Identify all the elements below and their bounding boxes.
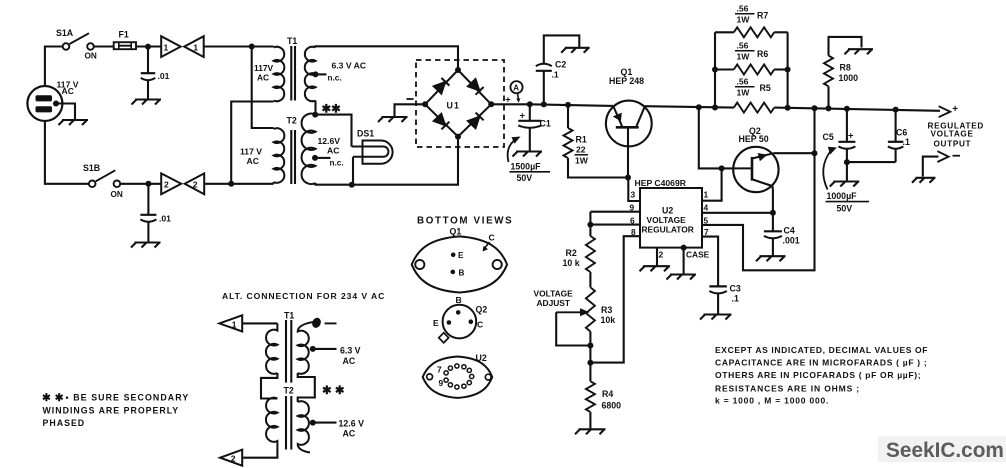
svg-text:10k: 10k: [601, 315, 616, 325]
svg-text:.01: .01: [159, 214, 171, 224]
junction phasing node: [312, 112, 318, 118]
resistor R1 22 1W: [564, 128, 573, 158]
svg-text:1000: 1000: [839, 73, 859, 83]
watermark SeekIC.com: [886, 439, 1004, 462]
Q1 pin B: [451, 269, 465, 278]
label .1 (C3): [732, 294, 739, 304]
svg-text:ALT. CONNECTION FOR 234 V AC: ALT. CONNECTION FOR 234 V AC: [222, 291, 385, 301]
svg-text:1500µF: 1500µF: [511, 162, 542, 172]
alt T1 secondary winding: [298, 322, 314, 374]
wire rail to R1: [567, 105, 569, 128]
resistor R6 .56 1W: [734, 65, 774, 75]
ground below C1: [513, 152, 543, 157]
svg-text:S1B: S1B: [83, 163, 100, 173]
label C (Q2 view): [477, 319, 483, 329]
wire phasing node to DS1: [315, 115, 351, 147]
svg-text:T1: T1: [287, 36, 297, 46]
package outline Q2 TO-5: [443, 305, 477, 339]
alt phasing mark **: [322, 385, 345, 397]
svg-text:VOLTAGE: VOLTAGE: [534, 289, 574, 299]
resistor R4 6800: [586, 381, 595, 412]
svg-text:117 V: 117 V: [240, 147, 262, 157]
pin label 1: [704, 190, 709, 200]
svg-text:B: B: [459, 269, 465, 278]
svg-text:C2: C2: [555, 60, 566, 70]
svg-text:3: 3: [631, 190, 636, 200]
svg-text:1: 1: [704, 190, 709, 200]
svg-text:.1: .1: [903, 137, 910, 147]
wire rail bridge to Q1: [530, 104, 613, 106]
svg-text:F1: F1: [119, 30, 129, 40]
label C1: [540, 119, 551, 129]
wire rail to C5: [846, 109, 848, 142]
Q2 pin B: [456, 310, 461, 315]
junction at lower C-filter: [145, 181, 151, 187]
label U1: [447, 101, 461, 111]
svg-text:CAPACITANCE ARE IN MICROFAR: CAPACITANCE ARE IN MICROFARADS ( µF ) ;: [715, 358, 927, 368]
svg-text:2: 2: [193, 180, 198, 190]
alt secondary series jog: [298, 373, 315, 402]
watermark backdrop: [878, 436, 1006, 462]
IC U2 box: [640, 188, 702, 248]
wire R8 top hook to chassis: [829, 37, 862, 56]
capacitor .01 (upper line filter): [141, 73, 156, 80]
wire arrow 1 to T1 primary: [204, 45, 274, 47]
Q1 base lead: [627, 127, 629, 177]
diode D-upper-left: [433, 78, 449, 94]
svg-text:5: 5: [704, 216, 709, 226]
label 9 (U2 view): [439, 378, 444, 388]
ground below CASE: [667, 275, 697, 280]
svg-text:CASE: CASE: [686, 250, 710, 260]
svg-text:C4: C4: [784, 226, 795, 236]
label R2 10k: [563, 248, 580, 268]
transistor Q1 circle: [606, 101, 652, 147]
chassis ground at plug: [59, 120, 89, 125]
wire R2 to R3: [589, 272, 591, 287]
label ON (S1B): [111, 190, 123, 199]
junction R1: [565, 102, 571, 108]
ground below R4: [575, 429, 606, 434]
wire rail to C1: [529, 104, 531, 121]
Q1 emitter arrow: [613, 113, 622, 122]
Q2 pin C: [469, 319, 474, 324]
svg-text:1: 1: [193, 43, 198, 53]
svg-text:• BE SURE SECONDARY: • BE SURE SECONDARY: [66, 393, 190, 403]
pin label 7: [704, 227, 709, 237]
svg-text:.01: .01: [158, 71, 170, 81]
alt T2 core: [286, 396, 291, 450]
transformer T2 secondary winding 12.6V: [302, 114, 316, 184]
label 7 (U2 view): [437, 365, 442, 375]
junction C5 top: [844, 106, 850, 112]
Q2 emitter line (arrowed): [752, 153, 774, 158]
label .01 (upper): [158, 71, 170, 81]
alt 6.3V tap dot: [310, 346, 316, 352]
chassis ground at bridge negative: [378, 117, 408, 122]
label VOLTAGE ADJUST: [534, 289, 574, 309]
wire F1 to filter 1: [136, 45, 161, 47]
svg-text:12.6V: 12.6V: [318, 136, 341, 146]
wire plug top to S1A: [45, 47, 63, 87]
svg-text:C: C: [477, 319, 483, 329]
junction wiper return: [587, 343, 593, 349]
wire junction up to T1 primary bottom: [231, 102, 273, 184]
capacitor .01 (lower line filter): [140, 215, 156, 222]
svg-text:+: +: [952, 104, 958, 115]
label S1A: [56, 28, 74, 38]
svg-text:VOLTAGE: VOLTAGE: [647, 215, 687, 225]
label CASE: [686, 250, 710, 260]
svg-text:1W: 1W: [575, 156, 589, 166]
svg-text:k = 1000 , M = 1000 000.: k = 1000 , M = 1000 000.: [715, 395, 829, 405]
junction at T1 primary return: [228, 181, 234, 187]
wire base node to U2 pin 3: [628, 178, 640, 202]
U2 pin circles: [444, 364, 474, 389]
alt T2 secondary winding: [298, 401, 310, 452]
alt connector arrow 1: [219, 315, 242, 331]
wire R7 row: [715, 31, 788, 33]
label C3: [730, 284, 741, 294]
fuse F1: [114, 42, 136, 49]
wire collector node to pin 5: [702, 153, 815, 270]
resistor R8 1000: [824, 56, 833, 87]
junction bridge right: [488, 101, 494, 107]
svg-text:T2: T2: [287, 116, 297, 126]
alt wire arrow1 to T1: [242, 322, 277, 324]
svg-text:R3: R3: [601, 305, 612, 315]
Q2 emitter arrow: [758, 153, 768, 161]
connector arrow 1 (left-pointing): [184, 36, 204, 57]
svg-text:✱ ✱: ✱ ✱: [322, 385, 345, 397]
junction at T2 primary takeoff: [249, 44, 255, 50]
junction pin6: [587, 222, 593, 228]
CASE stub: [683, 248, 685, 274]
svg-text:.56: .56: [737, 77, 749, 87]
alt label T2: [284, 385, 294, 395]
svg-text:R5: R5: [760, 83, 771, 93]
pin label 9: [630, 203, 635, 213]
svg-text:A: A: [513, 84, 519, 93]
label HEP 50: [739, 134, 769, 144]
wire pin 6: [590, 224, 640, 226]
junction C2: [541, 101, 547, 107]
wire S1B to filter 2: [120, 183, 161, 185]
wire capacitor to ground: [147, 80, 149, 99]
ground below upper .01 capacitor: [132, 100, 162, 105]
junction R6 left: [712, 67, 718, 73]
ground below C3: [700, 315, 732, 320]
wire R1 to base node: [568, 158, 628, 178]
label Q1: [621, 67, 633, 77]
wire bottom rail to bridge: [316, 137, 459, 185]
svg-text:HEP 248: HEP 248: [609, 76, 644, 86]
label HEP 248: [609, 76, 644, 86]
label Q2 (bottom view): [476, 305, 488, 315]
resistor R2 10k: [586, 236, 595, 272]
svg-text:.1: .1: [732, 294, 739, 304]
Q1 collector line: [636, 106, 645, 127]
label ON (S1A): [85, 52, 97, 61]
wire pin1 riser: [702, 168, 722, 200]
svg-text:B: B: [456, 295, 462, 305]
resistor R7 .56 1W: [734, 27, 774, 37]
wire rail R5 to output: [774, 108, 940, 111]
title BOTTOM VIEWS: [417, 216, 513, 227]
Q2 collector line: [752, 179, 773, 213]
wire plug bottom to S1B: [45, 121, 89, 184]
wire lower capacitor to ground: [147, 222, 149, 243]
label n.c. (6.3V): [328, 74, 342, 83]
svg-text:.56: .56: [737, 4, 749, 14]
label B (Q2 view): [456, 295, 462, 305]
label n.c. (12.6V): [330, 159, 344, 168]
svg-text:2: 2: [659, 250, 664, 260]
alt 12.6V tap wire: [313, 422, 337, 424]
svg-text:OUTPUT: OUTPUT: [934, 140, 972, 149]
wire T1 secondary bottom to phasing junction: [314, 101, 316, 115]
capacitor C2 .1: [536, 64, 552, 71]
svg-text:6800: 6800: [602, 401, 622, 411]
svg-text:HEP 50: HEP 50: [739, 134, 769, 144]
svg-text:R8: R8: [840, 63, 851, 73]
wire Q2 top node: [774, 152, 815, 154]
wire T1 secondary top to bridge: [316, 46, 459, 70]
junction Q1 base / R1 / pin3: [625, 175, 631, 181]
svg-text:S1A: S1A: [56, 28, 74, 38]
label C5: [823, 132, 834, 142]
junction C6 top: [893, 107, 899, 113]
junction C1: [527, 101, 533, 107]
label minus (bridge): [407, 98, 414, 100]
transistor Q2 circle: [733, 147, 778, 192]
svg-text:n.c.: n.c.: [330, 159, 344, 168]
package outline U2: [423, 357, 493, 398]
svg-text:6.3 V AC: 6.3 V AC: [332, 61, 367, 71]
junction U2 pin1 riser: [719, 165, 725, 171]
label HEP C4069R: [635, 178, 687, 188]
wire R6 row: [715, 68, 788, 70]
svg-text:9: 9: [439, 378, 444, 388]
left bus R6 R7: [714, 32, 716, 107]
svg-text:R1: R1: [576, 135, 587, 145]
junction bridge top: [455, 67, 461, 73]
wire C5-C6 bottom tie: [847, 161, 896, 163]
wire rail to Q2 base: [699, 107, 733, 168]
bridge diamond U1: [425, 70, 491, 137]
label 1500uF 50V: [510, 162, 551, 184]
label F1: [119, 30, 129, 40]
switch S1A: [63, 33, 94, 50]
diode D-lower-right: [468, 113, 484, 129]
wire bridge negative to chassis: [395, 104, 426, 116]
Q1 emitter line: [613, 106, 622, 127]
svg-text:ON: ON: [111, 190, 123, 199]
svg-text:Q1: Q1: [450, 227, 462, 237]
svg-text:E: E: [458, 251, 464, 260]
svg-text:AC: AC: [327, 146, 339, 156]
svg-text:ON: ON: [85, 52, 97, 61]
svg-text:2: 2: [231, 454, 236, 464]
capacitor C6 .1: [888, 142, 904, 149]
label .1 (C2): [552, 70, 559, 80]
output terminal minus: [937, 151, 948, 162]
alt connector arrow 2: [220, 450, 242, 466]
label T2: [287, 116, 297, 126]
svg-text:AC: AC: [343, 356, 356, 366]
junction R6 right: [785, 67, 791, 73]
pin label 6: [630, 216, 635, 226]
svg-text:Q2: Q2: [476, 305, 488, 315]
wire C6 to tie: [895, 149, 897, 162]
svg-text:n.c.: n.c.: [328, 74, 342, 83]
svg-text:DS1: DS1: [357, 129, 374, 139]
Q1 pin E: [451, 251, 464, 260]
alt secondary top dash: [325, 322, 337, 324]
label .56 1W R7: [735, 4, 768, 25]
svg-text:C5: C5: [823, 132, 834, 142]
svg-text:T1: T1: [284, 310, 294, 320]
wire 6.3V n.c. stub: [316, 73, 327, 75]
transformer T1 primary winding 117V: [274, 47, 285, 101]
wire C3 to ground: [717, 293, 719, 314]
label C4: [784, 226, 795, 236]
pin label 4: [704, 203, 709, 213]
pin label 3: [631, 190, 636, 200]
alt primary series jog: [261, 373, 277, 399]
label Q1 (bottom view): [450, 227, 462, 237]
capacitor C4 .001: [764, 231, 782, 238]
svg-text:AC: AC: [257, 73, 269, 83]
svg-text:1: 1: [164, 43, 169, 53]
wire pin 8: [590, 236, 640, 362]
junction pin8 tie: [587, 360, 593, 366]
svg-text:22: 22: [576, 145, 586, 155]
wire rail Q1 to R5: [645, 106, 734, 107]
wire arrow 2 to T2 primary bottom: [204, 183, 273, 185]
svg-text:.1: .1: [552, 70, 559, 80]
junction Q2 collector riser: [812, 105, 818, 111]
svg-text:+: +: [848, 131, 854, 142]
pin label 8: [631, 227, 636, 237]
alt label 12.6 V AC: [339, 418, 365, 438]
svg-text:R6: R6: [757, 49, 768, 59]
svg-text:+: +: [505, 94, 510, 104]
svg-text:C3: C3: [730, 284, 741, 294]
transformer T2 primary winding 117V: [274, 128, 285, 183]
Q2 pin E: [447, 320, 452, 325]
ground below pin 2: [640, 266, 671, 271]
svg-text:.001: .001: [783, 236, 800, 246]
wire minus terminal to ground: [923, 157, 939, 177]
alt 12.6V tap dot: [310, 420, 316, 426]
svg-text:VOLTAGE: VOLTAGE: [931, 130, 974, 139]
label C6: [896, 128, 907, 138]
label .001 (C4): [783, 236, 800, 246]
junction Q2 collector node: [812, 150, 818, 156]
wire junction to capacitor .01 (lower): [147, 184, 149, 215]
alt label 6.3 V AC: [340, 345, 361, 366]
label S1B: [83, 163, 100, 173]
svg-text:.56: .56: [737, 41, 749, 51]
svg-text:SeekIC.com: SeekIC.com: [886, 439, 1004, 462]
capacitor C3 .1: [709, 286, 727, 293]
wire pin9 drop: [589, 212, 591, 236]
label .1 (C6): [903, 137, 910, 147]
label plus (output): [952, 104, 958, 115]
tap dot 6.3V: [313, 71, 319, 77]
svg-text:12.6 V: 12.6 V: [339, 418, 365, 428]
junction R5-rail right: [785, 105, 791, 111]
polarity arrow C1: [508, 137, 521, 163]
transformer T1 core: [291, 46, 295, 101]
svg-text:R2: R2: [566, 248, 577, 258]
label 1000uF 50V: [826, 191, 870, 214]
wire rail to C6: [895, 110, 897, 142]
svg-text:U1: U1: [447, 101, 461, 111]
junction Q2 base drop: [696, 104, 702, 110]
alt secondary top blob: [310, 316, 322, 329]
svg-text:E: E: [433, 318, 439, 328]
svg-text:AC: AC: [62, 86, 74, 96]
polarity arrow C5: [823, 147, 837, 190]
svg-text:+: +: [520, 111, 526, 122]
connector arrow 1 (right-pointing): [161, 36, 181, 57]
resistor R5 .56 1W: [734, 103, 774, 113]
svg-text:7: 7: [437, 365, 442, 375]
dashed enclosure for U1: [416, 60, 504, 147]
alt 6.3V tap wire: [313, 348, 337, 350]
svg-text:6.3 V: 6.3 V: [340, 345, 361, 355]
alt T1 primary winding: [266, 323, 277, 373]
junction DS1 bottom: [349, 182, 355, 188]
label DS1: [357, 129, 374, 139]
svg-text:C1: C1: [540, 119, 551, 129]
label 117 V AC (T2 primary): [240, 147, 262, 167]
svg-text:AC: AC: [247, 156, 259, 166]
svg-text:AC: AC: [343, 428, 356, 438]
svg-text:WINDINGS ARE PROPERLY: WINDINGS ARE PROPERLY: [43, 406, 180, 416]
label R8 1000: [839, 63, 859, 84]
transformer T2 core: [291, 130, 295, 184]
capacitor C5 1000uF: [838, 142, 855, 149]
label R3 10k: [601, 305, 616, 325]
AC plug P1 (117 V AC source): [27, 86, 62, 121]
svg-text:ADJUST: ADJUST: [537, 298, 571, 308]
note EXCEPT AS INDICATED: [715, 345, 928, 406]
svg-text:C: C: [489, 233, 495, 243]
label 6.3 V AC: [332, 61, 367, 71]
output terminal plus: [939, 106, 951, 117]
node A arrow to rail: [516, 93, 520, 103]
label 12.6V AC: [318, 136, 341, 156]
connector arrow 2 (right-pointing): [161, 173, 181, 194]
ground at minus output: [912, 178, 936, 183]
capacitor C1 1500uF: [518, 121, 541, 128]
pilot lamp DS1: [352, 141, 393, 164]
wire pin4 node to C4: [772, 213, 774, 232]
Q1 case C callout: [483, 233, 495, 252]
svg-text:1000µF: 1000µF: [827, 191, 858, 201]
label plus (C5): [848, 131, 854, 142]
label 117 V AC: [57, 80, 79, 97]
wire pin 7 to C3: [702, 237, 718, 286]
Q1 base bar: [616, 126, 639, 129]
svg-text:PHASED: PHASED: [43, 418, 86, 428]
title ALT. CONNECTION FOR 234 V AC: [222, 291, 385, 301]
label 22 1W: [575, 145, 589, 166]
alt T2 primary winding: [266, 398, 277, 449]
